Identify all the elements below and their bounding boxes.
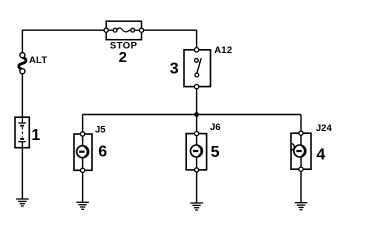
svg-text:5: 5 bbox=[211, 144, 220, 161]
fusible link ALT bbox=[19, 53, 26, 74]
svg-text:3: 3 bbox=[170, 61, 179, 78]
wire bus from lamp 6 to lamp 4 bbox=[83, 114, 301, 116]
svg-text:2: 2 bbox=[119, 49, 127, 66]
ground below lamp 5 bbox=[190, 203, 203, 210]
wire from ALT up and right to fuse 2 bbox=[22, 30, 106, 53]
svg-text:1: 1 bbox=[31, 127, 40, 144]
wire from battery 1 to ground bbox=[21, 148, 23, 199]
wire from ALT down to battery 1 bbox=[21, 74, 23, 118]
svg-text:6: 6 bbox=[98, 144, 107, 161]
junction node at bus and switch 3 wire bbox=[194, 112, 199, 117]
wire from switch 3 bottom to junction bbox=[196, 89, 198, 115]
svg-text:J24: J24 bbox=[316, 123, 333, 134]
wire from lamp 4 to ground bbox=[300, 171, 302, 203]
svg-text:4: 4 bbox=[316, 146, 325, 163]
wire from junction down to lamp 5 bbox=[196, 115, 198, 132]
svg-text:A12: A12 bbox=[214, 45, 232, 56]
bulb 4 (connector J24) bbox=[291, 131, 311, 171]
wire from fuse 2 to switch 3 top bbox=[142, 30, 197, 48]
switch 3 (connector A12) bbox=[184, 48, 211, 89]
bulb 5 (connector J6) bbox=[186, 132, 206, 173]
bulb 6 (connector J5) bbox=[74, 132, 92, 173]
svg-text:J5: J5 bbox=[95, 125, 106, 136]
fuse 2 STOP bbox=[104, 21, 143, 40]
wire from bus down to lamp 6 bbox=[82, 115, 84, 133]
wire from lamp 6 to ground bbox=[82, 172, 84, 202]
wire from bus down to lamp 4 bbox=[300, 115, 302, 132]
svg-text:J6: J6 bbox=[210, 122, 221, 133]
battery 1 bbox=[15, 117, 29, 148]
ground below battery 1 bbox=[16, 199, 29, 206]
svg-text:ALT: ALT bbox=[29, 55, 47, 66]
wire from lamp 5 to ground bbox=[196, 172, 198, 203]
ground below lamp 6 bbox=[76, 202, 89, 209]
ground below lamp 4 bbox=[295, 203, 308, 210]
